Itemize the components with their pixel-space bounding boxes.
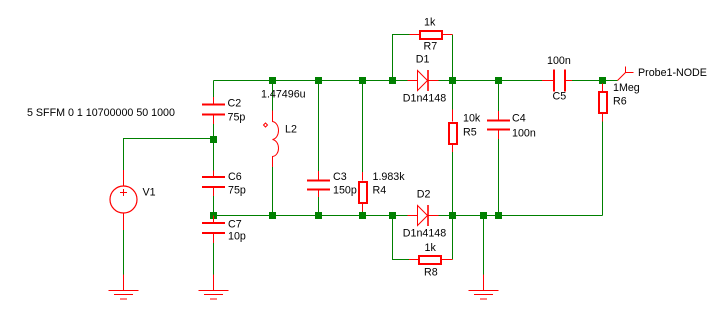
svg-text:C7: C7	[228, 219, 242, 231]
svg-text:C4: C4	[512, 113, 526, 125]
svg-text:D1: D1	[416, 54, 430, 66]
svg-text:D1n4148: D1n4148	[403, 93, 446, 105]
svg-text:10k: 10k	[463, 113, 481, 125]
svg-text:R4: R4	[373, 184, 387, 196]
svg-text:1.47496u: 1.47496u	[261, 89, 306, 101]
svg-text:V1: V1	[143, 187, 156, 199]
svg-text:5 SFFM 0 1 10700000 50 1000: 5 SFFM 0 1 10700000 50 1000	[27, 107, 175, 119]
svg-text:10p: 10p	[228, 230, 246, 242]
svg-text:100n: 100n	[547, 55, 571, 67]
svg-text:100n: 100n	[512, 127, 536, 139]
svg-text:C6: C6	[228, 171, 242, 183]
svg-text:C2: C2	[228, 98, 242, 110]
svg-text:D2: D2	[417, 188, 431, 200]
svg-text:L2: L2	[285, 123, 297, 135]
svg-text:1.983k: 1.983k	[373, 171, 406, 183]
svg-text:150p: 150p	[333, 184, 357, 196]
svg-text:75p: 75p	[228, 111, 246, 123]
svg-text:R6: R6	[613, 96, 627, 108]
svg-text:1Meg: 1Meg	[613, 82, 640, 94]
svg-text:1k: 1k	[424, 17, 436, 29]
svg-text:1k: 1k	[425, 242, 437, 254]
svg-text:R7: R7	[424, 41, 438, 53]
svg-text:C3: C3	[333, 171, 347, 183]
svg-text:D1n4148: D1n4148	[403, 228, 446, 240]
svg-text:C5: C5	[553, 91, 567, 103]
svg-text:R8: R8	[424, 267, 438, 279]
svg-text:R5: R5	[463, 127, 477, 139]
svg-text:75p: 75p	[228, 184, 246, 196]
svg-text:Probe1-NODE: Probe1-NODE	[638, 67, 707, 79]
